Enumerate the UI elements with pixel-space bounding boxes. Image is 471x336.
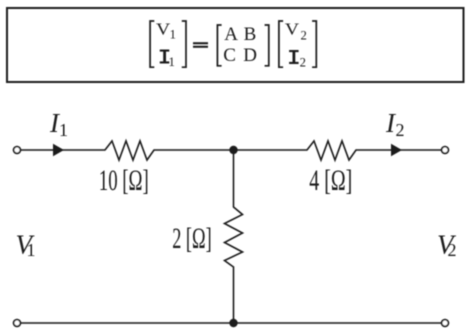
svg-text:2: 2 [396, 120, 405, 140]
svg-text:V: V [156, 19, 171, 38]
svg-text:10 [Ω]: 10 [Ω] [99, 164, 149, 197]
svg-text:A: A [224, 24, 238, 45]
svg-text:2: 2 [301, 28, 307, 42]
svg-text:1: 1 [170, 27, 176, 41]
svg-text:C: C [223, 45, 236, 66]
svg-text:4 [Ω]: 4 [Ω] [309, 164, 352, 197]
svg-text:1: 1 [27, 240, 36, 260]
svg-text:2: 2 [448, 240, 457, 260]
svg-text:1: 1 [169, 55, 175, 69]
svg-text:V: V [285, 20, 300, 39]
svg-text:2: 2 [300, 55, 306, 69]
svg-text:1: 1 [59, 120, 68, 140]
svg-text:B: B [244, 24, 257, 45]
svg-text:2 [Ω]: 2 [Ω] [172, 222, 212, 255]
svg-text:D: D [243, 45, 257, 66]
